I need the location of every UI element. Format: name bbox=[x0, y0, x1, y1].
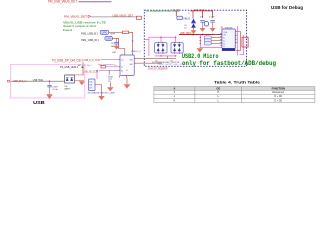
resistor zigzag row A bbox=[98, 64, 103, 66]
label rows to connector bbox=[200, 34, 222, 48]
wire top clipped bbox=[79, 1, 112, 3]
red rail bbox=[191, 10, 214, 12]
svg-text:PM1_USB_ID: PM1_USB_ID bbox=[81, 38, 97, 42]
net label box DP bbox=[204, 36, 211, 39]
VBUS drop bbox=[175, 11, 177, 16]
net label PM1_USB_ID row2 bbox=[81, 38, 100, 42]
wire row1 bbox=[109, 31, 122, 33]
ground arrow C bbox=[98, 96, 104, 100]
svg-text:USB_D_C: USB_D_C bbox=[131, 51, 141, 53]
svg-text:USB_VBUS: USB_VBUS bbox=[180, 32, 192, 35]
svg-text:P3_USB_HUB 2: P3_USB_HUB 2 bbox=[60, 65, 79, 69]
svg-text:U11: U11 bbox=[89, 81, 92, 83]
net label box ID bbox=[204, 42, 211, 45]
TVS diode D9 bbox=[191, 19, 196, 28]
net label box DM0 bbox=[105, 36, 113, 40]
connector J5 micro usb bbox=[220, 27, 237, 51]
capacitor C159 bbox=[47, 81, 58, 94]
svg-text:Table 4. Truth Table: Table 4. Truth Table bbox=[214, 80, 260, 84]
svg-text:SGM7227_RESERVE: SGM7227_RESERVE bbox=[148, 68, 168, 71]
svg-text:PM_VBUS_DET: PM_VBUS_DET bbox=[64, 15, 87, 19]
svg-text:1%: 1% bbox=[108, 81, 111, 83]
svg-text:1uF: 1uF bbox=[200, 16, 204, 18]
ESD wires top bbox=[149, 36, 177, 38]
port PM_VBUS_DET bbox=[64, 15, 91, 19]
svg-text:USB_DM_C: USB_DM_C bbox=[82, 65, 92, 67]
resistor R2 bbox=[101, 66, 106, 68]
svg-text:0524P_MICRO_USB_CONN: 0524P_MICRO_USB_CONN bbox=[158, 64, 185, 66]
wire D- bbox=[136, 62, 162, 64]
IC U10 usb switch bbox=[118, 53, 136, 78]
wire row C to IC bbox=[99, 69, 118, 71]
svg-text:D + 1D: D + 1D bbox=[275, 95, 283, 98]
svg-text:DP0: DP0 bbox=[102, 32, 108, 35]
junction bbox=[132, 40, 133, 41]
wires to connector pins bbox=[211, 35, 222, 44]
svg-text:OE: OE bbox=[216, 87, 220, 91]
note text green bbox=[63, 21, 106, 32]
svg-text:USB_5V0L: USB_5V0L bbox=[33, 80, 44, 82]
svg-text:D-: D- bbox=[121, 67, 124, 69]
capacitor C11 bbox=[111, 38, 119, 47]
wire D+ to ESD bbox=[136, 58, 176, 60]
wire row2 to IC top bbox=[112, 38, 124, 52]
red drop to resistor text bbox=[108, 70, 110, 74]
truth table bbox=[154, 87, 315, 103]
ground arrow connector bbox=[199, 47, 201, 50]
svg-text:P3_USB_DP_DM_CB 2: P3_USB_DP_DM_CB 2 bbox=[52, 59, 83, 63]
ESD bottom wire bbox=[155, 55, 177, 57]
hierarchy port bbox=[8, 80, 10, 82]
ground arrow B bbox=[109, 83, 111, 88]
svg-text:HD: HD bbox=[130, 60, 134, 62]
right vertical wires bbox=[236, 26, 238, 55]
dual diode D8 bbox=[65, 62, 84, 83]
ground arrow under C11 bbox=[113, 46, 119, 50]
net label box DM bbox=[204, 39, 211, 42]
svg-text:PM_USB_VBUS_DET: PM_USB_VBUS_DET bbox=[48, 0, 77, 4]
wire row B to IC bbox=[106, 66, 119, 68]
red bus USB_VBUS bbox=[179, 34, 222, 36]
svg-text:CM: CM bbox=[89, 84, 92, 86]
rail drops bbox=[192, 11, 194, 19]
wire B1 to ground bbox=[95, 85, 102, 97]
ESD array D2 bbox=[155, 42, 167, 54]
net label box DP0 bbox=[100, 30, 109, 34]
wire D_P to IC bbox=[101, 59, 119, 61]
svg-text:BAV99: BAV99 bbox=[65, 88, 71, 91]
svg-text:H: H bbox=[174, 99, 176, 102]
svg-text:D + 2D: D + 2D bbox=[275, 99, 283, 102]
ground arrow D under IC bbox=[126, 78, 128, 84]
svg-text:A: A bbox=[173, 87, 175, 91]
connector pins right bbox=[235, 32, 237, 43]
wire 5V0 bbox=[11, 80, 65, 82]
wire row A bbox=[103, 64, 114, 66]
ground arrow A bbox=[46, 94, 52, 99]
ground arrow TVS bbox=[193, 28, 195, 31]
svg-text:0.1uF: 0.1uF bbox=[209, 16, 215, 18]
svg-text:HD: HD bbox=[130, 64, 134, 66]
ground arrow E bbox=[79, 81, 85, 85]
circle marker bbox=[204, 21, 209, 26]
svg-text:USB_5V0_In: USB_5V0_In bbox=[13, 80, 27, 83]
junction + magenta drop bbox=[96, 70, 97, 71]
svg-text:DM0: DM0 bbox=[106, 38, 112, 41]
ESD array D3 bbox=[171, 42, 183, 54]
red component right edge bbox=[242, 37, 248, 47]
IC pins bbox=[118, 53, 136, 78]
svg-text:USB_VBUS_DET: USB_VBUS_DET bbox=[113, 14, 134, 18]
svg-text:VBUS: VBUS bbox=[183, 17, 190, 20]
hierarchy block pink box USB bbox=[11, 64, 85, 98]
wire row1 to corner bbox=[129, 32, 133, 53]
svg-text:Disconnect: Disconnect bbox=[272, 91, 284, 94]
wire right of D8 bbox=[75, 80, 85, 82]
net label PM1_USB_B row1 bbox=[81, 32, 99, 36]
green port row A bbox=[78, 64, 81, 66]
component B1 bbox=[89, 79, 96, 91]
svg-text:PM1_USB_B: PM1_USB_B bbox=[81, 32, 96, 36]
wire VBUS_DET bbox=[91, 16, 136, 18]
capacitor C2 0.1uF bbox=[209, 16, 216, 32]
svg-text:USB: USB bbox=[33, 100, 45, 105]
svg-text:VBUS_MICRO: VBUS_MICRO bbox=[194, 9, 205, 11]
value text 560R bbox=[108, 76, 113, 83]
dashed reserve box bbox=[144, 10, 246, 66]
resistor R1 bbox=[123, 31, 129, 34]
svg-text:H: H bbox=[217, 91, 219, 94]
svg-text:4.7uF: 4.7uF bbox=[52, 89, 58, 91]
svg-text:boot: boot bbox=[63, 28, 72, 32]
fuse F1 bbox=[136, 16, 141, 19]
junction bbox=[49, 80, 51, 82]
net label P3_USB_HUB row B bbox=[60, 65, 84, 69]
connector pins left bbox=[220, 33, 222, 45]
svg-text:only for fastboot/ADB/debug: only for fastboot/ADB/debug bbox=[182, 60, 276, 67]
capacitor C1 1uF bbox=[200, 16, 206, 32]
svg-text:STUSB03E_MICRO_USB: STUSB03E_MICRO_USB bbox=[88, 92, 116, 94]
svg-text:USB for Debug: USB for Debug bbox=[271, 5, 303, 10]
bus junctions bbox=[192, 34, 213, 35]
net label box VBUS bbox=[177, 16, 183, 19]
svg-text:FUNCTION: FUNCTION bbox=[272, 87, 286, 91]
svg-text:USB_D_P_CON: USB_D_P_CON bbox=[84, 58, 101, 62]
svg-text:USB2.0 Micro: USB2.0 Micro bbox=[182, 53, 219, 60]
